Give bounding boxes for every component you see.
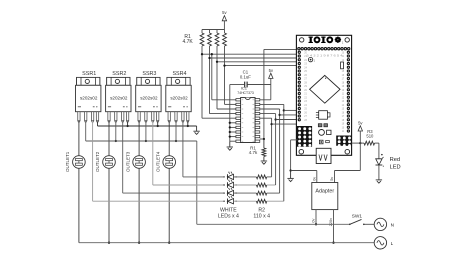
wire switch line [197, 223, 350, 225]
svg-text:5 4 3 2 1 9 8 7 6 5 4: 5 4 3 2 1 9 8 7 6 5 4 [307, 55, 344, 58]
IOIO MCU (PIC, diamond) [310, 75, 340, 103]
svg-text:5v: 5v [330, 177, 334, 181]
wire IC1 pin1 to net P1 [212, 99, 236, 101]
LED Red [378, 143, 380, 159]
power adapter [312, 183, 338, 210]
white LED D2 and resistor R2 row 2 [223, 184, 224, 185]
svg-text:LED: LED [390, 165, 401, 171]
IOIO board outline and header [296, 35, 351, 155]
svg-text:220v: 220v [329, 218, 333, 226]
wire SSR2 pin1 to OUTLET2 to neutral bus [108, 121, 110, 156]
wire IOIO VIN to 5v node [352, 142, 361, 144]
svg-text:110 x 4: 110 x 4 [253, 213, 270, 219]
ground (supply common) [290, 171, 292, 179]
IOIO components (caps) [318, 124, 322, 127]
wire neutral bus [79, 242, 374, 244]
wire IC1 ground bus [229, 85, 231, 142]
svg-text:OUTLET1: OUTLET1 [65, 151, 70, 172]
svg-text:OUTLET3: OUTLET3 [125, 151, 130, 172]
IOIO right pin column [347, 51, 350, 54]
svg-text:4.7k: 4.7k [249, 150, 258, 155]
IOIO component (regulator) [341, 62, 344, 69]
svg-text:74HCT373: 74HCT373 [237, 90, 254, 95]
outlet OUTLET2 [103, 156, 116, 169]
wire SSR pin2 AC bus to switch line [85, 121, 87, 141]
wire net P4 to IOIO left pins [225, 65, 298, 67]
wire SSR2 pin3 to white LED row [122, 121, 124, 193]
IOIO left power header (dark grid) [297, 126, 313, 147]
wire IC1 output Q4 to IOIO and LED row [260, 117, 272, 119]
AC source N [374, 218, 386, 230]
svg-text:s202s02: s202s02 [140, 96, 158, 101]
outlet OUTLET1 [73, 156, 86, 169]
IOIO component (crystal) [319, 130, 325, 136]
wire pull-up 1 to IC1 input [201, 46, 203, 118]
wire IC1 output Q2 to IOIO and LED row [260, 108, 280, 110]
wire LE net (IOIO to IC1 pin 11) [264, 48, 298, 50]
svg-text:510: 510 [366, 134, 374, 139]
wire SSR4 pin3 to white LED row [182, 121, 184, 177]
svg-text:Adapter: Adapter [315, 188, 334, 194]
wire adapter 0v(mains) to switch line [315, 210, 317, 225]
svg-text:SSR1: SSR1 [82, 71, 96, 77]
svg-text:s202s02: s202s02 [80, 96, 98, 101]
outlet OUTLET4 [163, 156, 176, 169]
ground (SSR return) [196, 126, 198, 131]
resistor R3 510 [360, 142, 364, 144]
wire adapter 5v to IOIO VIN [334, 171, 336, 183]
IOIO USB connector [316, 148, 331, 163]
wire adapter 220v to live bus [333, 210, 335, 243]
wire pull-up 3 to IC1 input [216, 46, 218, 109]
svg-text:N: N [391, 222, 394, 227]
IOIO component (button) [319, 140, 323, 144]
wire pull-up 4 to IC1 input [224, 46, 226, 104]
svg-text:0v: 0v [312, 218, 316, 222]
wire SSR3 pin1 to OUTLET3 to neutral bus [138, 121, 140, 156]
svg-text:Red: Red [390, 157, 400, 163]
IOIO right power header (dark grid) [336, 136, 352, 146]
svg-text:0.1uF: 0.1uF [240, 75, 251, 80]
ground (IC1 GND) [229, 141, 231, 147]
svg-text:0v: 0v [312, 177, 316, 181]
wire net P1 to IOIO left pins [202, 53, 298, 55]
wire IC1 output Q3 to IOIO and LED row [260, 113, 276, 115]
white LED D3 and resistor R2 row 3 [223, 192, 224, 193]
capacitor C1 0.1uF [244, 82, 246, 88]
wire SSR1 pin3 to white LED row [92, 121, 94, 201]
wire IOIO GND to adapter 0v [291, 139, 298, 141]
ground (red LED) [376, 179, 382, 181]
white LED D1 and resistor R2 row 1 [223, 176, 224, 177]
outlet OUTLET3 [133, 156, 146, 169]
IOIO component (switch pad) [327, 130, 331, 134]
svg-text:L: L [391, 241, 394, 246]
IOIO mounting holes [299, 149, 304, 154]
svg-text:OUTLET2: OUTLET2 [95, 151, 100, 172]
wire SSR pin4 ground bus [97, 121, 99, 126]
wire SSR4 pin1 to OUTLET4 to neutral bus [168, 121, 170, 156]
resistor network R1 4.7K x4 pull-ups [202, 29, 225, 31]
svg-text:OUTLET4: OUTLET4 [155, 151, 160, 172]
IOIO left pin column [298, 51, 301, 54]
svg-text:s202s02: s202s02 [110, 96, 128, 101]
IOIO top pin header row [297, 47, 300, 50]
svg-text:SSR3: SSR3 [142, 71, 156, 77]
svg-text:s202s02: s202s02 [170, 96, 188, 101]
IOIO pin1 marker [308, 57, 312, 61]
wire pull-up 2 to IC1 input [209, 46, 211, 114]
svg-text:SSR4: SSR4 [172, 71, 186, 77]
wire SSR3 pin3 to white LED row [152, 121, 154, 185]
wire VCC net (C1 to IC1 pin 20) [230, 84, 244, 86]
wire IC1 output Q1 to IOIO and LED row [260, 103, 284, 105]
ground (R1 pull-down) [263, 157, 265, 162]
wire net P2 to IOIO left pins [210, 57, 298, 59]
svg-text:4.7K: 4.7K [182, 39, 193, 45]
svg-text:LEDs x 4: LEDs x 4 [218, 213, 239, 219]
AC source L [374, 237, 386, 249]
IOIO component (led) [326, 141, 330, 143]
white LED D4 and resistor R2 row 4 [223, 201, 224, 202]
svg-text:SSR2: SSR2 [112, 71, 126, 77]
resistor R1 4.7k pull-down [263, 139, 265, 148]
svg-text:SW1: SW1 [352, 214, 363, 220]
IOIO component (small IC) [319, 111, 328, 120]
wire net P3 to IOIO left pins [217, 61, 298, 63]
wire SSR1 pin1 to OUTLET1 to neutral bus [78, 121, 80, 156]
